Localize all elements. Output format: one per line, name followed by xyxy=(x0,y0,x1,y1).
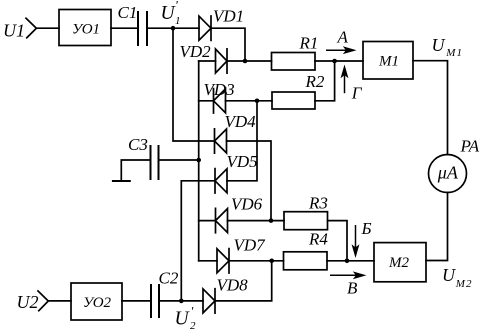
diode VD1 xyxy=(199,16,211,40)
svg-text:C3: C3 xyxy=(128,135,148,154)
svg-text:М1: М1 xyxy=(378,54,399,70)
wire U2 to УО2 xyxy=(48,300,71,302)
svg-text:УО1: УО1 xyxy=(72,22,100,38)
wire VD2 to R1 xyxy=(227,60,272,62)
capacitor C2 xyxy=(151,285,159,317)
wire: vertical bus x=198.7 (VD2 anode - VD3 cathode - C3 - VD6 cathode - VD7 anode) xyxy=(198,61,200,261)
wire УО2 to C2 xyxy=(122,300,151,302)
svg-text:VD1: VD1 xyxy=(213,7,244,26)
svg-text:VD2: VD2 xyxy=(180,42,212,61)
svg-text:М2: М2 xyxy=(388,255,409,271)
svg-text:U1: U1 xyxy=(3,21,25,41)
wire meter bottom to M2 right xyxy=(426,193,448,261)
dot VD7 row junction xyxy=(269,259,274,264)
meter PA circle xyxy=(429,155,467,193)
arrows xyxy=(326,48,364,278)
wire R3 right, down to node after R4 xyxy=(328,221,348,261)
svg-text:μА: μА xyxy=(437,163,459,183)
wire: node A down to R2 right xyxy=(315,61,335,101)
resistor R3 xyxy=(284,212,328,230)
resistor R4 xyxy=(284,252,328,270)
svg-text:VD5: VD5 xyxy=(227,152,258,171)
svg-text:U: U xyxy=(442,265,456,285)
node U'2 dot xyxy=(179,299,184,304)
wire VD6 anode to R3 xyxy=(228,220,285,222)
wire VD5 cathode left, down to U'2 node xyxy=(181,181,215,301)
diode VD7 xyxy=(217,249,229,273)
input chevron U1 xyxy=(26,18,36,38)
amplifier box УО2 xyxy=(71,283,122,320)
svg-text:М1: М1 xyxy=(445,47,463,59)
svg-text:U: U xyxy=(432,35,446,55)
wire R2 left to VD3 xyxy=(226,100,273,102)
svg-text:U2: U2 xyxy=(17,292,39,312)
ground xyxy=(113,180,130,182)
node Б dot after R4 xyxy=(345,259,350,264)
dot VD3/R2 junction xyxy=(255,99,260,104)
svg-text:VD8: VD8 xyxy=(217,276,249,295)
capacitor C1 xyxy=(138,12,147,45)
arrow A (right) xyxy=(326,49,350,51)
wire M1 right, down to meter xyxy=(413,61,448,155)
svg-text:VD7: VD7 xyxy=(234,236,267,255)
svg-text:': ' xyxy=(191,304,194,319)
svg-text:C2: C2 xyxy=(159,269,179,288)
node U'1 dot xyxy=(171,26,176,31)
svg-text:М2: М2 xyxy=(455,278,473,290)
arrow В (right) xyxy=(330,274,360,276)
diode VD6 xyxy=(216,208,228,232)
arrow Г (up) xyxy=(344,71,346,93)
svg-text:А: А xyxy=(337,27,349,46)
wire U'2 node to VD8 xyxy=(159,300,203,302)
wire VD4 anode right, down to VD6 row xyxy=(227,141,272,221)
svg-text:В: В xyxy=(347,279,358,298)
svg-text:VD6: VD6 xyxy=(231,195,263,214)
wire VD1 to corner, down to VD2 row node xyxy=(211,28,245,61)
wire VD2 row: left corner from bus xyxy=(199,60,216,62)
svg-text:2: 2 xyxy=(190,320,196,332)
block M1 xyxy=(363,42,413,80)
diode VD4 xyxy=(215,129,227,153)
svg-text:': ' xyxy=(175,0,178,13)
svg-text:R2: R2 xyxy=(305,72,325,91)
svg-text:1: 1 xyxy=(175,15,181,27)
svg-text:PA: PA xyxy=(460,137,480,156)
diode VD5 xyxy=(215,169,227,193)
resistor R2 xyxy=(272,92,315,109)
dot C3 bus junction xyxy=(196,158,201,163)
wire C1 to VD1 (node U'1) xyxy=(147,27,199,29)
diode VD8 xyxy=(203,289,215,313)
dot VD1/VD2 junction xyxy=(243,59,248,64)
svg-text:R1: R1 xyxy=(299,34,319,53)
svg-text:U: U xyxy=(175,309,191,330)
svg-text:R3: R3 xyxy=(308,194,328,213)
block M2 xyxy=(374,243,426,282)
amplifier box УО1 xyxy=(59,10,111,46)
diode VD2 xyxy=(216,49,228,73)
node A dot xyxy=(332,59,337,64)
wire: VD7 node down to VD8 row xyxy=(215,261,272,301)
resistor R1 xyxy=(272,53,316,71)
wire R4 right to M2 xyxy=(327,260,374,262)
dot VD6 row junction xyxy=(269,218,274,223)
wire VD6 left to bus xyxy=(199,220,216,222)
svg-text:УО2: УО2 xyxy=(83,295,112,311)
svg-text:VD3: VD3 xyxy=(204,80,235,99)
svg-text:C1: C1 xyxy=(118,3,138,22)
wire УО1 to C1 xyxy=(111,27,138,29)
wire: VD3 node down to VD5 row xyxy=(227,101,257,181)
wire C3 right plate to bus xyxy=(159,159,199,161)
svg-text:R4: R4 xyxy=(308,230,328,249)
capacitor C3 xyxy=(151,146,159,179)
wire: U'1 vertical down to VD4 row xyxy=(173,28,214,141)
wire C3 left plate to ground xyxy=(121,160,150,181)
svg-text:VD4: VD4 xyxy=(225,112,257,131)
svg-text:Б: Б xyxy=(361,219,372,238)
input chevron U2 xyxy=(38,291,48,311)
diode VD3 xyxy=(214,89,226,113)
wire VD3 to bus xyxy=(199,100,214,102)
arrow Б (down) xyxy=(355,225,357,252)
wire U1 to УО1 xyxy=(36,27,59,29)
svg-text:Г: Г xyxy=(351,84,363,103)
wire bus corner to VD7 xyxy=(199,260,217,262)
wire VD7 to R4 xyxy=(229,260,284,262)
wire R1 to M1 xyxy=(315,60,363,62)
